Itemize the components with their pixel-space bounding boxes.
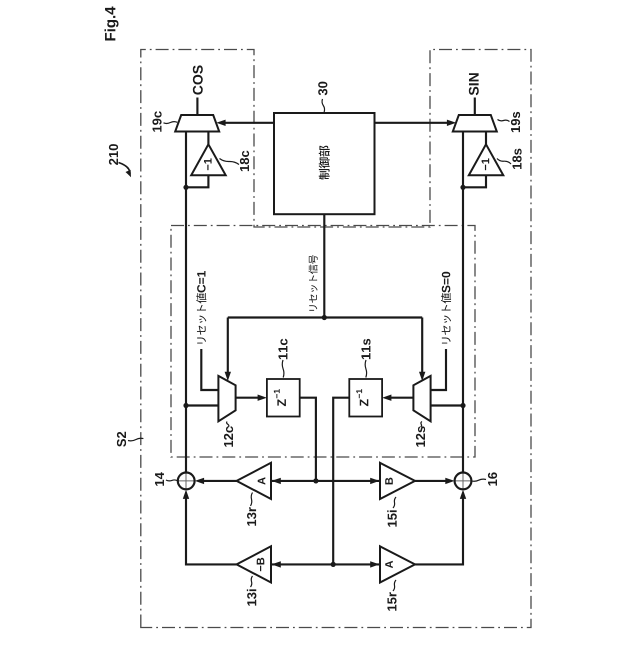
amp 15r (gain A) bbox=[380, 546, 415, 582]
control unit text seigyobu bbox=[319, 146, 330, 180]
outer dash-dot boundary box 210 (with top notch) bbox=[141, 50, 531, 628]
label 18s with leader bbox=[512, 149, 521, 169]
wire reset value C=1 into mux 12c bbox=[201, 349, 218, 390]
wire amp 15r output to adder 16 (right then up) bbox=[415, 498, 463, 564]
label 19s with leader bbox=[511, 112, 520, 132]
wire sin feedback vertical (adder 16 output up to mux 19s) bbox=[462, 132, 464, 473]
wire reset signal stem from control 30 bbox=[323, 214, 325, 317]
amp 15i (gain B) bbox=[380, 463, 415, 499]
mux 19s bbox=[453, 115, 497, 132]
mux 12c bbox=[218, 376, 235, 421]
wire COS output bbox=[196, 98, 198, 116]
wire reset drop to mux 12s select bbox=[421, 318, 423, 373]
wire amp 18c output to mux 19c bbox=[207, 132, 209, 145]
adder 14 bbox=[178, 480, 195, 482]
label 15i with leader bbox=[387, 510, 397, 526]
wire reset value S=0 into mux 12s bbox=[431, 349, 446, 390]
label reset value S=0 (risetto-chi S=0) bbox=[441, 272, 451, 344]
label 13i with leader bbox=[247, 589, 257, 605]
wire mux 12c output to Z-1 11c bbox=[236, 397, 259, 399]
node cos feedback / amp 18c tap bbox=[183, 185, 188, 190]
label S2 with leader bbox=[117, 432, 126, 447]
amp 18s (gain -1) bbox=[469, 144, 504, 175]
wire amp 18s input tap bbox=[463, 175, 486, 187]
wire amp 13i output to adder 14 (left then up) bbox=[186, 498, 237, 564]
control unit box 30 bbox=[274, 113, 375, 214]
node sin feedback / mux 12s tap bbox=[460, 403, 465, 408]
figure title Fig.4 bbox=[104, 7, 118, 41]
label SIN bbox=[469, 73, 479, 95]
wire reset drop to mux 12c select bbox=[227, 318, 229, 373]
wire amp 18c input tap bbox=[186, 175, 208, 187]
amp 13i (gain -B) bbox=[237, 546, 271, 582]
delay block Z-1 11s bbox=[349, 379, 382, 417]
wire mux 12s output to Z-1 11s bbox=[391, 397, 414, 399]
inner dash-dot box S2 region bbox=[171, 226, 475, 458]
node reset rail junction bbox=[322, 315, 327, 320]
label 16 with leader bbox=[488, 472, 497, 485]
node sin feedback / amp 18s tap bbox=[460, 185, 465, 190]
label 11s with leader bbox=[361, 339, 370, 359]
label 18c with leader bbox=[240, 151, 249, 171]
label 12c with leader bbox=[224, 426, 233, 446]
wire cos feedback vertical (adder 14 output up to mux 19c) bbox=[185, 132, 187, 473]
wire amp 13r output into adder 14 bbox=[204, 480, 237, 482]
delay block Z-1 11c bbox=[267, 379, 300, 417]
wire feedback into mux 12c input bbox=[186, 404, 218, 406]
wire SIN output bbox=[474, 98, 476, 116]
label 14 with leader bbox=[155, 472, 164, 486]
wire amp 18s output to mux 19s bbox=[485, 132, 487, 145]
wire reset rail horizontal bbox=[228, 316, 422, 318]
wire Z-1 11s output down to row 2 (sin value) bbox=[333, 398, 349, 565]
label 15r with leader bbox=[387, 592, 396, 611]
node cos value to row 1 bbox=[313, 478, 318, 483]
node sin value to row 2 bbox=[331, 562, 336, 567]
label reset value C=1 (risetto-chi C=1) bbox=[196, 271, 206, 344]
wire row 1 distribution (into amp 13r and amp 15i) bbox=[271, 480, 380, 482]
wire amp 15i output into adder 16 bbox=[415, 480, 446, 482]
wire select from control 30 to mux 19s bbox=[375, 122, 448, 124]
label 12s with leader bbox=[416, 426, 425, 446]
label 13r with leader bbox=[247, 507, 256, 526]
node cos feedback / mux 12c tap bbox=[183, 403, 188, 408]
wire row 2 distribution (into amp 13i and amp 15r) bbox=[271, 563, 380, 565]
label 11c with leader bbox=[278, 339, 287, 359]
amp 13r (gain A) bbox=[237, 463, 271, 499]
wire feedback into mux 12s input bbox=[431, 404, 463, 406]
wire Z-1 11c output down to row 1 (cos value) bbox=[300, 398, 316, 481]
label COS bbox=[193, 65, 203, 94]
amp 18c (gain -1) bbox=[191, 144, 226, 175]
label 19c with leader bbox=[152, 111, 161, 131]
label reset signal (risetto shingo) bbox=[308, 255, 317, 311]
label 30 with leader bbox=[318, 82, 327, 96]
wire select from control 30 to mux 19c bbox=[225, 122, 274, 124]
mux 19c bbox=[175, 115, 219, 132]
label 210 with arrow bbox=[109, 144, 118, 165]
adder 16 bbox=[455, 480, 472, 482]
mux 12s bbox=[413, 376, 430, 421]
